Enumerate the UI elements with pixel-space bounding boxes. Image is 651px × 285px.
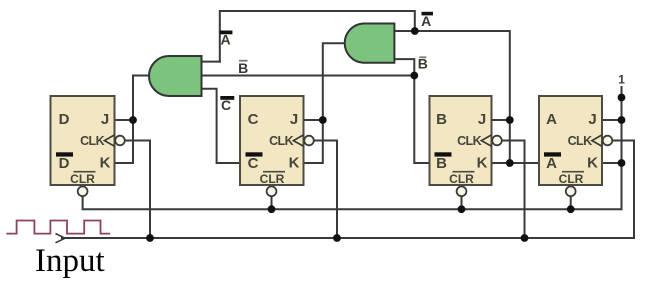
svg-text:D: D bbox=[59, 111, 70, 128]
svg-text:D: D bbox=[59, 155, 70, 172]
svg-text:J: J bbox=[101, 111, 109, 128]
svg-text:CLR: CLR bbox=[449, 172, 474, 186]
svg-text:B: B bbox=[238, 60, 248, 76]
svg-text:A: A bbox=[546, 155, 557, 172]
svg-text:CLK: CLK bbox=[80, 134, 104, 148]
svg-text:J: J bbox=[478, 111, 486, 128]
svg-text:A: A bbox=[546, 111, 557, 128]
svg-text:B: B bbox=[436, 111, 447, 128]
svg-text:CLR: CLR bbox=[559, 172, 584, 186]
svg-text:C: C bbox=[248, 111, 259, 128]
svg-text:J: J bbox=[588, 111, 596, 128]
svg-text:K: K bbox=[289, 155, 300, 172]
svg-text:K: K bbox=[587, 155, 598, 172]
svg-text:B: B bbox=[436, 155, 447, 172]
svg-text:CLK: CLK bbox=[568, 134, 592, 148]
svg-text:C: C bbox=[248, 155, 259, 172]
svg-text:J: J bbox=[290, 111, 298, 128]
svg-text:1: 1 bbox=[618, 73, 625, 87]
svg-text:K: K bbox=[477, 155, 488, 172]
svg-text:CLK: CLK bbox=[457, 134, 481, 148]
svg-text:CLR: CLR bbox=[260, 172, 285, 186]
svg-text:K: K bbox=[100, 155, 111, 172]
svg-text:CLK: CLK bbox=[269, 134, 293, 148]
svg-text:Input: Input bbox=[35, 243, 105, 279]
svg-text:CLR: CLR bbox=[70, 172, 95, 186]
